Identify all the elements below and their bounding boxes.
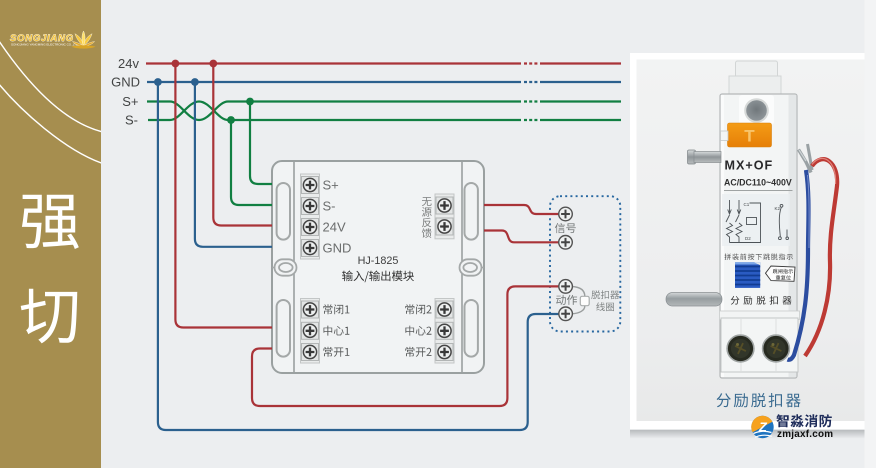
svg-text:S+: S+ <box>122 94 138 109</box>
svg-text:24V: 24V <box>323 220 346 235</box>
svg-text:K2: K2 <box>775 206 781 211</box>
svg-text:S+: S+ <box>323 178 339 193</box>
svg-text:D2: D2 <box>745 236 751 241</box>
svg-text:AC/DC110~400V: AC/DC110~400V <box>724 178 792 188</box>
svg-text:S-: S- <box>125 113 138 128</box>
svg-text:MX+OF: MX+OF <box>725 159 774 173</box>
svg-text:Z: Z <box>758 420 768 435</box>
svg-text:zmjaxf.com: zmjaxf.com <box>777 429 833 440</box>
svg-text:GND: GND <box>111 75 140 90</box>
svg-text:GND: GND <box>323 241 352 256</box>
svg-text:T: T <box>744 127 755 146</box>
svg-text:SONGJIANG YANGMING ELECTRONIC: SONGJIANG YANGMING ELECTRONIC CO.,LTD <box>11 43 79 47</box>
svg-text:C1: C1 <box>744 202 750 207</box>
svg-text:HJ-1825: HJ-1825 <box>358 255 399 267</box>
svg-text:24v: 24v <box>118 56 139 71</box>
svg-text:S-: S- <box>323 199 336 214</box>
